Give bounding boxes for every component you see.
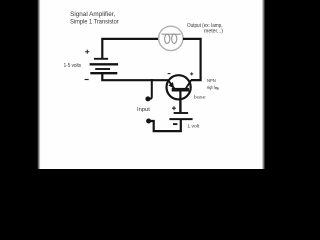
battery B1 1-5 volts — [90, 59, 119, 73]
wire battery+ to lamp — [102, 39, 159, 59]
input terminal dot lower — [146, 119, 151, 124]
label base — [194, 95, 206, 101]
label - of B2 — [173, 123, 177, 125]
label Output (ex: lamp, meter...) — [187, 23, 223, 35]
label NPN — [207, 78, 216, 83]
label + of B2 — [172, 106, 176, 110]
svg-text:Input: Input — [137, 107, 150, 113]
label 1-5 volts — [64, 63, 82, 69]
wire input lower branch to 1V battery minus — [149, 120, 181, 131]
label 1 volt — [187, 124, 200, 129]
svg-text:Simple 1 Transistor: Simple 1 Transistor — [70, 19, 119, 26]
svg-text:meter...): meter...) — [204, 29, 223, 35]
label - of B1 — [85, 79, 89, 81]
label + of B1 — [85, 50, 89, 54]
battery B2 1 volt — [169, 113, 192, 119]
transistor Q1 — [167, 75, 192, 100]
lamp DS1 — [159, 26, 183, 50]
input terminal dot upper — [145, 96, 150, 101]
label High hfe — [207, 85, 220, 91]
wire battery- to emitter — [102, 73, 169, 80]
label - at emitter — [168, 73, 171, 75]
wire base lead to 1V battery — [179, 99, 181, 112]
svg-text:Signal Amplifier,: Signal Amplifier, — [70, 11, 115, 18]
svg-text:NPN: NPN — [207, 78, 216, 83]
label Input — [137, 107, 150, 113]
wire input upper branch — [149, 79, 152, 99]
svg-text:1 volt: 1 volt — [187, 124, 200, 129]
title text — [70, 11, 119, 26]
svg-text:base: base — [194, 95, 206, 101]
svg-text:High h: High h — [207, 85, 216, 90]
white video frame background — [0, 0, 300, 169]
wire lamp to collector — [183, 39, 201, 80]
label + at collector — [190, 72, 193, 75]
svg-text:1-5 volts: 1-5 volts — [64, 63, 82, 69]
